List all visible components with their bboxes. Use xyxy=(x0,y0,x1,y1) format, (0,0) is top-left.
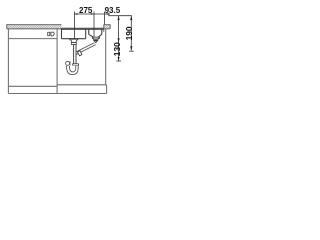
left plinth band xyxy=(8,85,57,87)
dimension extension middle xyxy=(93,12,95,38)
190 top arrow xyxy=(130,16,132,20)
cabinet middle wall xyxy=(56,29,58,94)
130 top arrow xyxy=(118,16,120,20)
sink rim right edge xyxy=(103,25,105,32)
arrow at 93.5 right xyxy=(105,13,110,15)
main bowl bottom xyxy=(62,38,86,40)
plinth bottom line xyxy=(8,93,106,95)
countertop right hatched section xyxy=(104,25,110,29)
main bowl drain flange xyxy=(70,39,78,45)
sink bottom line side view xyxy=(8,38,57,40)
half bowl right wall xyxy=(101,29,103,34)
half bowl sloped bottom left xyxy=(89,34,94,37)
half bowl sloped bottom right xyxy=(98,34,102,37)
190 bottom arrow xyxy=(130,46,132,50)
svg-text:190: 190 xyxy=(124,26,134,40)
plinth right edge xyxy=(106,85,108,94)
arrow left of 275 xyxy=(74,13,77,15)
trap U-bend xyxy=(67,66,79,75)
fastening clip rectangle xyxy=(48,32,50,35)
130 bottom tick xyxy=(116,60,121,62)
cabinet left wall xyxy=(7,29,9,94)
arrow right of 275 xyxy=(91,13,94,15)
tailpipe from main drain xyxy=(74,44,76,63)
top reference extension line xyxy=(108,15,132,17)
trap cup nut xyxy=(73,64,79,66)
190 bottom tick xyxy=(129,50,134,52)
vertical dimension 190 line xyxy=(130,16,132,51)
right plinth band xyxy=(57,84,107,86)
dimension line top xyxy=(74,13,109,15)
countertop bottom line across hole xyxy=(62,28,104,30)
svg-text:130: 130 xyxy=(112,42,122,56)
countertop left hatched section xyxy=(7,25,62,29)
half bowl drain flange xyxy=(92,37,99,42)
sink rim top line xyxy=(62,27,104,29)
dimension extension right xyxy=(104,12,106,25)
svg-text:275: 275 xyxy=(79,6,93,15)
half bowl left wall xyxy=(88,29,90,34)
trap cleanout plug xyxy=(66,61,71,65)
dimension 275 extension line left xyxy=(73,12,75,39)
main bowl right wall xyxy=(85,29,87,38)
130 bottom arrow xyxy=(118,38,120,42)
diagonal pipe from half bowl drain xyxy=(76,43,96,56)
vertical dimension 130 line xyxy=(118,16,120,61)
fastening clip cam xyxy=(51,32,55,36)
130 lower arrow xyxy=(118,57,120,61)
cabinet right wall xyxy=(105,29,107,85)
svg-text:93.5: 93.5 xyxy=(105,6,121,15)
main bowl left wall xyxy=(61,28,63,38)
